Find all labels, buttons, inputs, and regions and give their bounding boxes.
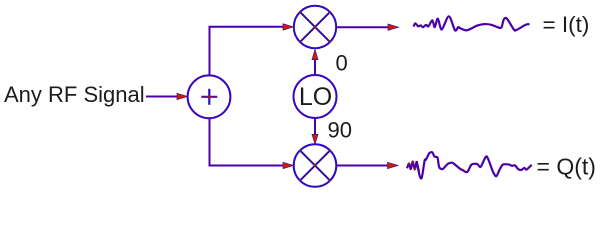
svg-text:0: 0 — [336, 51, 348, 76]
wire: summer bottom to lower mixer — [210, 118, 284, 165]
svg-text:= I(t): = I(t) — [543, 12, 590, 37]
oscillator LO — [294, 75, 337, 118]
wire: LO to lower mixer (90 deg) — [314, 118, 316, 135]
waveform Q(t) — [417, 152, 532, 178]
svg-text:Any RF Signal: Any RF Signal — [4, 82, 145, 107]
arrowhead: input into summer — [177, 93, 188, 99]
svg-text:LO: LO — [299, 83, 332, 111]
mixer M2 lower (circle with X) — [294, 144, 337, 187]
waveform Q(t) start (red) — [407, 161, 417, 170]
arrowhead: upper mixer output — [388, 24, 399, 30]
arrowhead: into lower mixer left — [283, 162, 294, 168]
arrowhead: down into lower mixer — [312, 134, 318, 144]
waveform Q(t) red tinge — [408, 162, 419, 171]
summer U1 (circle with plus) — [188, 75, 231, 118]
arrowhead: up into upper mixer — [312, 49, 318, 59]
arrowhead: lower mixer output — [388, 162, 399, 168]
wire: upper mixer output — [336, 26, 389, 28]
svg-text:= Q(t): = Q(t) — [537, 154, 596, 180]
wire: input into summer — [146, 96, 179, 98]
svg-text:90: 90 — [328, 118, 352, 143]
wire: lower mixer output — [336, 165, 388, 167]
wire: LO to upper mixer (0 deg) — [314, 60, 316, 75]
wire: summer top to upper mixer — [210, 27, 284, 76]
mixer M1 upper (circle with X) — [294, 6, 336, 48]
arrowhead: into upper mixer left — [283, 24, 294, 30]
waveform I(t) — [414, 16, 530, 30]
